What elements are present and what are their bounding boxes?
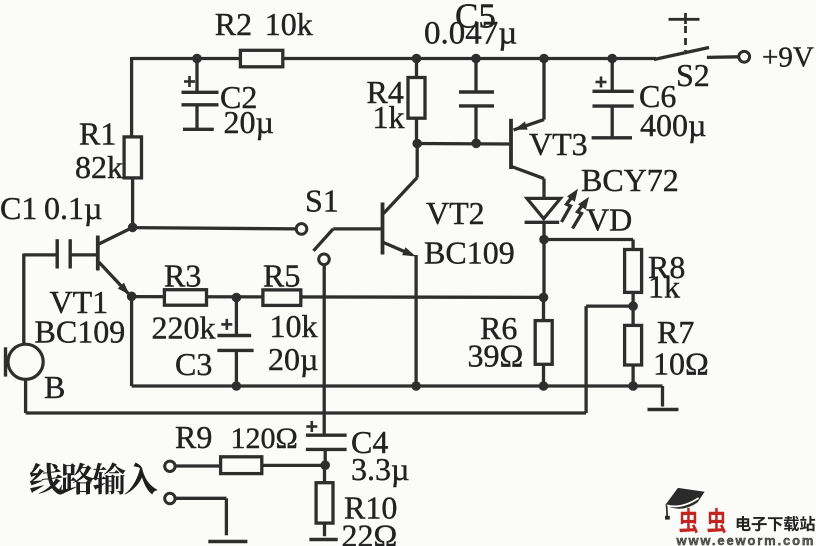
- svg-text:R1: R1: [79, 116, 116, 152]
- svg-text:10k: 10k: [270, 308, 318, 344]
- svg-text:82k: 82k: [75, 149, 123, 185]
- svg-text:0.047µ: 0.047µ: [424, 16, 517, 52]
- svg-text:20µ: 20µ: [224, 104, 274, 140]
- svg-text:400µ: 400µ: [640, 107, 706, 143]
- svg-text:BC109: BC109: [35, 314, 126, 350]
- svg-text:1k: 1k: [648, 269, 680, 305]
- svg-text:R5: R5: [263, 258, 300, 294]
- svg-text:VD: VD: [586, 202, 632, 238]
- svg-text:BCY72: BCY72: [581, 162, 679, 198]
- svg-text:220k: 220k: [152, 310, 216, 346]
- svg-text:20µ: 20µ: [268, 341, 318, 377]
- svg-text:R3: R3: [164, 258, 201, 294]
- svg-text:VT2: VT2: [426, 195, 485, 231]
- svg-text:39Ω: 39Ω: [468, 338, 524, 374]
- svg-text:0.1µ: 0.1µ: [44, 190, 102, 226]
- svg-text:22Ω: 22Ω: [342, 518, 398, 546]
- svg-text:120Ω: 120Ω: [231, 422, 298, 455]
- svg-text:C1: C1: [0, 190, 37, 226]
- svg-text:C3: C3: [175, 346, 212, 382]
- svg-text:1k: 1k: [373, 99, 405, 135]
- svg-text:VT3: VT3: [529, 126, 588, 162]
- svg-text:R9: R9: [175, 419, 212, 455]
- svg-text:S2: S2: [676, 57, 710, 93]
- svg-text:10Ω: 10Ω: [653, 346, 709, 382]
- svg-text:10k: 10k: [265, 6, 313, 42]
- svg-text:R2: R2: [215, 6, 252, 42]
- svg-text:+9V: +9V: [762, 42, 814, 74]
- svg-text:B: B: [44, 369, 65, 405]
- svg-text:BC109: BC109: [424, 235, 515, 271]
- svg-text:3.3µ: 3.3µ: [351, 451, 409, 487]
- svg-text:S1: S1: [305, 183, 339, 219]
- svg-text:www.eeworm.com: www.eeworm.com: [676, 533, 816, 546]
